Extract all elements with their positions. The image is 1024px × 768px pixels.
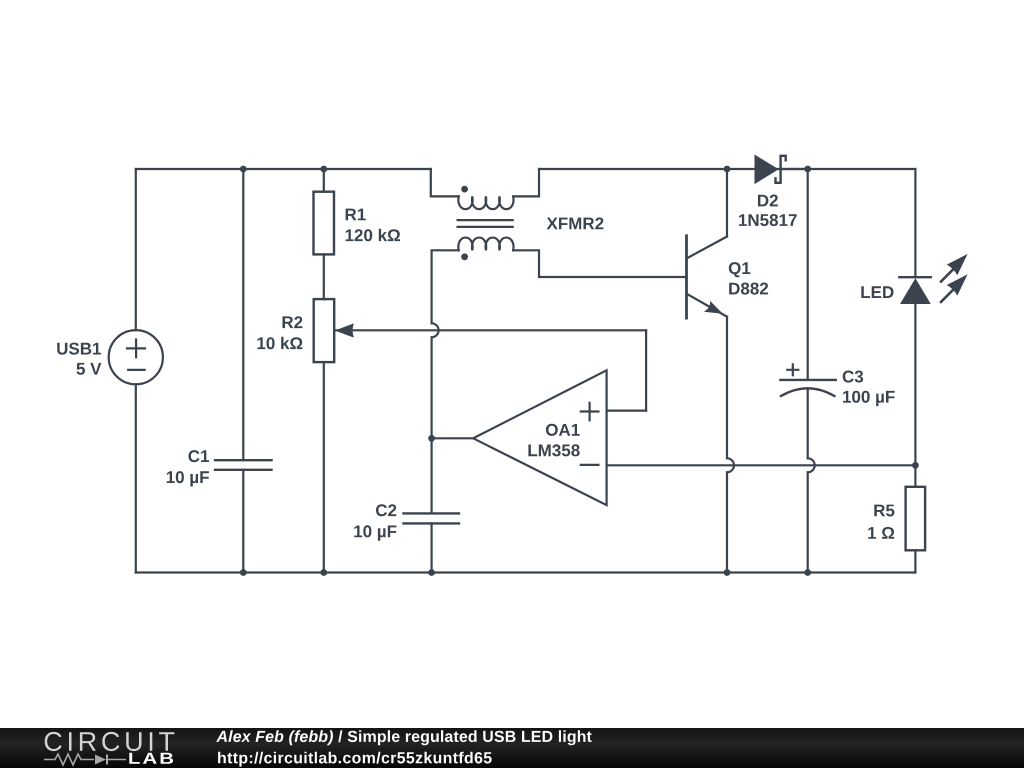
op-amp plus symbol (581, 403, 599, 421)
label C1 value (167, 471, 209, 486)
label R1 (346, 209, 366, 221)
node dot top rail / C3 (804, 166, 811, 173)
wire Q1 emitter vertical lower (726, 472, 728, 572)
wire top rail left (136, 168, 431, 170)
transformer XFMR2 secondary left lead (432, 250, 459, 323)
resistor R1 (314, 192, 335, 255)
LED light arrow 1 head (947, 254, 968, 275)
label R2 value (258, 337, 303, 350)
transformer XFMR2 secondary right lead to Q1 base (513, 250, 686, 277)
LED light arrow 1 shaft (941, 267, 956, 282)
wire OA1 output lead (432, 437, 474, 439)
transistor Q1 emitter diagonal (688, 295, 727, 317)
transformer primary phase dot (461, 186, 468, 193)
R2 wiper arrowhead (335, 323, 354, 337)
label R1 value (346, 229, 400, 242)
label R5 value (868, 527, 894, 539)
voltage source USB1 circle (109, 330, 163, 384)
node dot bottom rail / Q1 emitter (724, 569, 731, 576)
diode D2 cathode bar (schottky) (776, 156, 786, 183)
footer title (216, 730, 333, 745)
label C2 (376, 504, 396, 516)
footer url (218, 752, 492, 767)
wire op-amp plus input lead (607, 410, 647, 412)
transistor Q1 collector diagonal (688, 237, 727, 258)
node dot top rail / Q1 collector (724, 166, 731, 173)
wire R5 top lead (914, 465, 916, 487)
USB1 minus symbol (128, 369, 144, 371)
label XFMR2 (547, 217, 604, 229)
wire hop over wiper wire at node (431.6,330.3) (432, 323, 439, 337)
label OA1 part (528, 444, 579, 456)
label R5 (874, 505, 894, 517)
wire R1 top lead (323, 169, 325, 192)
transformer XFMR2 core (458, 219, 513, 221)
wire Q1 collector vertical (726, 169, 728, 237)
capacitor C3 top plate (780, 379, 835, 381)
LED light arrow 2 shaft (941, 287, 956, 302)
wire LED anode to R5 node (914, 304, 916, 465)
wire C1 branch upper (242, 169, 244, 460)
transistor Q1 emitter arrowhead (704, 301, 723, 314)
wire C3 branch mid (807, 388, 809, 458)
diode D2 triangle (755, 155, 779, 185)
capacitor C3 curved plate (781, 388, 834, 396)
label R2 (283, 316, 303, 328)
op-amp minus symbol (581, 464, 599, 466)
label Q1 part (729, 283, 768, 295)
USB1 plus symbol (127, 340, 145, 358)
node dot bottom rail / C1 (240, 569, 247, 576)
label C1 (189, 450, 210, 462)
CircuitLab logo wordmark CIRCUIT (45, 732, 175, 751)
CircuitLab logo LAB (129, 753, 173, 764)
resistor R2 (rheostat body) (314, 299, 335, 362)
wire R5 bottom lead (914, 550, 916, 572)
capacitor C2 plates (404, 512, 460, 514)
label D2 part (739, 214, 797, 226)
wire R1-R2 link (323, 254, 325, 299)
footer bar (0, 728, 1024, 768)
label Q1 (729, 262, 751, 277)
wire C3 branch upper (807, 169, 809, 380)
wire OA1 minus input feedback to R5 (607, 464, 916, 466)
transistor Q1 base bar (685, 236, 688, 318)
wire op-amp output vertical (to C2) (431, 337, 433, 513)
wire R2 bottom lead (323, 362, 325, 572)
wire C3 branch lower (807, 472, 809, 572)
transformer secondary phase dot (461, 253, 468, 260)
label C2 value (354, 525, 396, 540)
node dot top rail / R1 (320, 166, 327, 173)
resistor R5 (906, 487, 926, 551)
node dot bottom rail / C3 (804, 569, 811, 576)
label C3 value (843, 391, 895, 406)
LED triangle (900, 278, 931, 304)
capacitor C1 plates (215, 459, 272, 461)
label USB1 value (77, 363, 102, 375)
transformer XFMR2 primary right lead (513, 169, 539, 196)
wire C2 bottom lead (431, 523, 433, 572)
wire Q1 emitter vertical upper (726, 317, 728, 459)
transformer XFMR2 primary left lead (431, 169, 459, 196)
wire wiper corner vertical (645, 330, 647, 410)
wire C1 branch lower (242, 470, 244, 573)
label OA1 (546, 424, 580, 436)
wire D2 cathode to C3 node (781, 168, 808, 170)
label USB1 (57, 343, 101, 355)
node dot top rail / C1 (240, 166, 247, 173)
node dot bottom rail / R2 (320, 569, 327, 576)
label C3 (843, 371, 863, 383)
wire hop over feedback wire at node (727,465.3) (727, 458, 734, 472)
capacitor C3 plus symbol (787, 364, 798, 375)
wire hop over feedback wire at node (807.7,465.3) (808, 458, 815, 472)
label LED (861, 286, 893, 298)
node dot bottom rail / C2 (428, 569, 435, 576)
wire left vertical upper (USB1 to top rail) (135, 169, 137, 330)
wire bottom rail (136, 571, 916, 573)
wire LED branch upper (914, 169, 916, 277)
transformer XFMR2 secondary winding (458, 238, 513, 251)
wire left vertical lower (USB1 to bottom rail) (135, 384, 137, 572)
label D2 (758, 195, 778, 207)
LED cathode bar (899, 276, 931, 278)
wire R2 wiper horizontal (336, 329, 646, 331)
node dot feedback / R5 top (912, 462, 919, 469)
transformer XFMR2 primary winding (458, 196, 513, 209)
node dot OA1 output (428, 435, 435, 442)
LED light arrow 2 head (947, 274, 968, 295)
op-amp OA1 triangle (473, 370, 606, 505)
wire top rail right (539, 168, 915, 170)
CircuitLab logo resistor-diode doodle (44, 754, 126, 765)
